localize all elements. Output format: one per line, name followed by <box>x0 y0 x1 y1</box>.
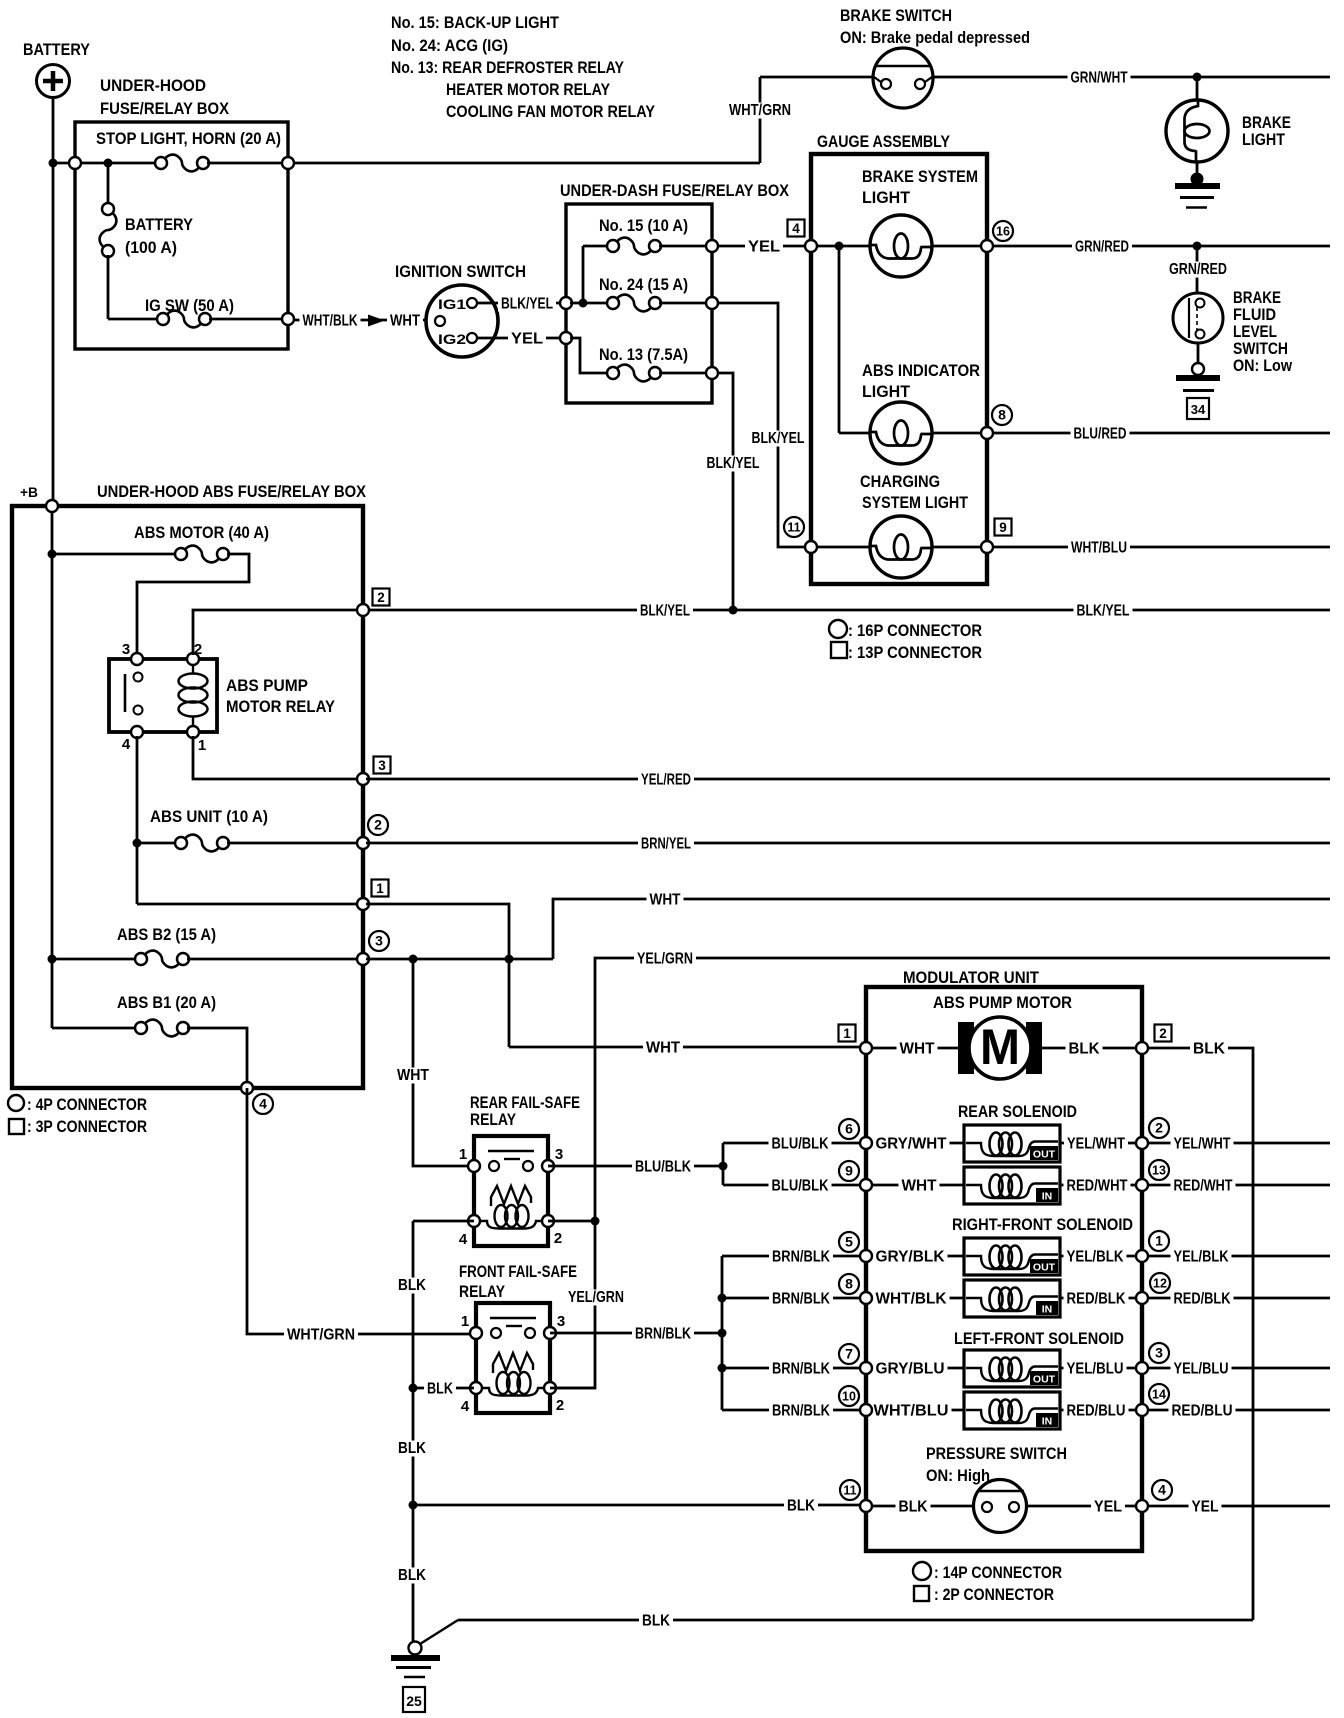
svg-text:BLK: BLK <box>642 1613 670 1630</box>
terminal modulator 10 <box>860 1404 872 1416</box>
svg-text:+B: +B <box>20 484 38 500</box>
arrowhead on WHT wire <box>368 315 385 327</box>
wire WHT sol <box>866 1184 964 1187</box>
label GRN/RED <box>1072 238 1132 255</box>
wire WHT down to rear fail-safe <box>413 959 472 1166</box>
svg-text:BLK: BLK <box>398 1277 426 1294</box>
label WHT (bus) <box>647 891 684 908</box>
connector id 2 (2P) <box>1155 1025 1172 1042</box>
fuse IG SW 50A <box>157 311 211 328</box>
svg-text:RED/BLU: RED/BLU <box>1067 1403 1126 1420</box>
svg-text:UNDER-DASH FUSE/RELAY BOX: UNDER-DASH FUSE/RELAY BOX <box>560 181 790 200</box>
ignition switch pin IG2 <box>467 333 477 343</box>
svg-text:BLU/RED: BLU/RED <box>1074 426 1127 443</box>
wire to brake light bulb <box>1196 77 1199 101</box>
junction BLK to pressure switch <box>409 1501 418 1510</box>
junction bracket to 7 <box>718 1364 727 1373</box>
terminal No.15 out <box>706 240 718 252</box>
connector id 9b <box>839 1161 859 1181</box>
svg-text:LIGHT: LIGHT <box>862 382 911 401</box>
label BLU/BLK (rear relay) <box>632 1158 694 1175</box>
svg-text:RED/WHT: RED/WHT <box>1174 1178 1233 1195</box>
wire BRN/BLK bracket <box>721 1256 724 1410</box>
svg-text:SYSTEM LIGHT: SYSTEM LIGHT <box>862 493 969 512</box>
solenoid LEFT-FRONT IN <box>964 1392 1060 1429</box>
wire to ABS UNIT fuse <box>137 842 177 845</box>
wire battery to stop-light fuse <box>53 162 158 165</box>
fuse ABS B2 15A <box>135 951 189 968</box>
label WHT <box>387 312 423 329</box>
svg-text:WHT: WHT <box>646 1040 680 1057</box>
connector id 1 (2P) <box>839 1025 856 1042</box>
terminal modulator 9 <box>860 1179 872 1191</box>
wire battery feed (vertical) <box>52 98 55 507</box>
connector id 4b <box>1152 1480 1172 1500</box>
relay pin 4 <box>131 726 143 738</box>
svg-text:BRAKE SYSTEM: BRAKE SYSTEM <box>862 167 978 186</box>
wire BLK to pressure switch <box>413 1504 866 1507</box>
terminal YEL in <box>560 332 572 344</box>
wire relay pin1 to terminal 3 <box>193 736 360 779</box>
svg-text:STOP LIGHT, HORN (20 A): STOP LIGHT, HORN (20 A) <box>96 129 281 148</box>
svg-text:ABS INDICATOR: ABS INDICATOR <box>862 361 980 380</box>
terminal BLK/YEL in <box>560 297 572 309</box>
wire stop-light fuse to box edge <box>207 162 288 165</box>
modulator unit box <box>866 987 1142 1551</box>
svg-text:COOLING FAN MOTOR RELAY: COOLING FAN MOTOR RELAY <box>446 102 656 121</box>
svg-text:HEATER MOTOR RELAY: HEATER MOTOR RELAY <box>446 80 611 99</box>
svg-text:YEL/WHT: YEL/WHT <box>1067 1136 1125 1153</box>
junction ABS UNIT fuse feed <box>133 839 142 848</box>
wire YEL/GRN bus <box>552 958 1330 1388</box>
terminal modulator 14 <box>1136 1404 1148 1416</box>
wire front relay pin3 BRN/BLK <box>550 1332 718 1335</box>
wire to ABS B2 fuse <box>52 958 137 961</box>
svg-text:WHT/GRN: WHT/GRN <box>729 102 791 119</box>
connector id 1c <box>1149 1231 1169 1251</box>
terminal modulator 1b <box>1136 1250 1148 1262</box>
wire brake light to ground <box>1196 162 1199 181</box>
terminal No.24 out <box>706 297 718 309</box>
connector id 4 (13P) <box>788 220 805 237</box>
svg-text:YEL/GRN: YEL/GRN <box>637 951 693 968</box>
svg-text:5: 5 <box>845 1234 853 1250</box>
wire ABS MOTOR fuse to relay pin3 <box>137 554 249 655</box>
svg-text:BLK/YEL: BLK/YEL <box>640 603 690 620</box>
svg-text:BRN/BLK: BRN/BLK <box>772 1403 830 1420</box>
svg-text:9: 9 <box>845 1163 853 1179</box>
svg-text:ON: High: ON: High <box>926 1466 990 1485</box>
terminal No.13 out <box>706 367 718 379</box>
svg-text:6: 6 <box>845 1121 853 1137</box>
wire IG2 YEL to under-dash box <box>477 337 566 340</box>
wire BLK ground bus <box>458 1619 1253 1622</box>
wire GRY/BLU <box>866 1367 964 1370</box>
connector id 5 <box>839 1232 859 1252</box>
svg-text:No. 13: REAR DEFROSTER RELAY: No. 13: REAR DEFROSTER RELAY <box>391 58 625 77</box>
legend 4P connector <box>8 1095 24 1111</box>
svg-text:2: 2 <box>194 641 202 658</box>
label YEL (No.15 out) <box>745 238 783 255</box>
wire GRN/RED gauge-16 to right <box>993 245 1330 248</box>
svg-text:IGNITION SWITCH: IGNITION SWITCH <box>395 262 526 281</box>
svg-text:FRONT FAIL-SAFE: FRONT FAIL-SAFE <box>459 1262 577 1281</box>
svg-text:RELAY: RELAY <box>459 1282 506 1301</box>
junction WHT branch to rear relay <box>409 955 418 964</box>
svg-text:8: 8 <box>845 1276 853 1292</box>
label RED/BLU (out) <box>1169 1402 1236 1419</box>
svg-text:4: 4 <box>1158 1482 1166 1498</box>
under-hood ABS fuse/relay box <box>12 506 363 1088</box>
wire YEL out <box>1148 1505 1330 1508</box>
svg-text:BLK/YEL: BLK/YEL <box>501 296 553 313</box>
wire YEL/BLU <box>1060 1367 1142 1370</box>
terminal gauge 4 <box>805 240 817 252</box>
label GRY/BLK <box>873 1248 948 1265</box>
wire YEL/RED <box>366 778 1330 781</box>
svg-text:YEL: YEL <box>748 239 780 256</box>
svg-text:: 2P CONNECTOR: : 2P CONNECTOR <box>934 1585 1054 1604</box>
svg-text:YEL/WHT: YEL/WHT <box>1174 1136 1231 1153</box>
wire RED/BLU <box>1060 1409 1142 1412</box>
legend 2P connector <box>914 1586 929 1601</box>
wire WHT riser to bus <box>553 899 1330 959</box>
ground brake light <box>1191 173 1204 186</box>
svg-text:YEL/BLK: YEL/BLK <box>1067 1249 1124 1266</box>
svg-text:BRN/YEL: BRN/YEL <box>641 836 691 853</box>
wire WHT/BLK sol <box>866 1297 964 1300</box>
terminal under-hood box left <box>69 157 81 169</box>
terminal ABS box 3c <box>357 953 369 965</box>
svg-text:3: 3 <box>122 641 130 658</box>
wire BLK drop <box>412 1221 415 1642</box>
wire YEL from switch <box>1026 1505 1142 1508</box>
connector id 4 (4P) <box>253 1094 273 1114</box>
label WHT/BLU (sol) <box>871 1402 952 1419</box>
label YEL/WHT (out) <box>1171 1135 1234 1152</box>
wire stop-light output to brake switch riser <box>294 162 760 165</box>
terminal modulator 7 <box>860 1362 872 1374</box>
svg-text:No. 13 (7.5A): No. 13 (7.5A) <box>599 345 688 364</box>
connector id 10 <box>839 1386 859 1406</box>
wire abs-indicator row <box>839 432 870 435</box>
wire brake-system row right <box>932 245 984 248</box>
label BRN/YEL <box>638 835 694 852</box>
svg-text:RIGHT-FRONT SOLENOID: RIGHT-FRONT SOLENOID <box>952 1215 1133 1234</box>
wire rear relay pin3 BLU/BLK <box>548 1165 719 1168</box>
wire to ABS B1 fuse <box>52 1027 137 1030</box>
label BLU/BLK (to 9) <box>769 1177 832 1194</box>
relay pin 1 <box>187 726 199 738</box>
label YEL/BLK <box>1064 1248 1127 1265</box>
svg-text:RED/BLU: RED/BLU <box>1172 1403 1233 1420</box>
svg-text:GRN/RED: GRN/RED <box>1169 261 1227 278</box>
svg-text:WHT: WHT <box>902 1178 937 1195</box>
label WHT/BLK <box>300 312 361 329</box>
wire No.13 feed <box>570 338 609 373</box>
svg-text:LIGHT: LIGHT <box>1242 130 1286 149</box>
svg-text:YEL: YEL <box>511 331 543 348</box>
connector id 7 <box>839 1344 859 1364</box>
wire front relay pin2 to YEL/GRN riser <box>550 1387 595 1390</box>
wire No.15 fuse to edge <box>659 245 706 248</box>
label BRN/BLK (to 7) <box>769 1360 833 1377</box>
label YEL/BLU <box>1064 1360 1127 1377</box>
svg-text:WHT/BLK: WHT/BLK <box>876 1291 947 1308</box>
motor ABS PUMP MOTOR <box>958 1022 974 1074</box>
terminal modulator 5 <box>860 1250 872 1262</box>
ABS pump motor relay box <box>109 659 217 732</box>
svg-text:BRN/BLK: BRN/BLK <box>772 1361 830 1378</box>
label BRN/BLK (to 10) <box>769 1402 833 1419</box>
svg-text:BLK/YEL: BLK/YEL <box>707 455 760 472</box>
ground id 34 <box>1187 398 1209 419</box>
junction ABS B2 feed <box>48 955 57 964</box>
svg-text:No. 24: ACG (IG): No. 24: ACG (IG) <box>391 36 508 55</box>
wire battery 100A fuse feed <box>107 163 110 205</box>
svg-text:RED/WHT: RED/WHT <box>1067 1178 1128 1195</box>
wire brake-system row <box>814 245 870 248</box>
wire RED/WHT <box>1060 1184 1142 1187</box>
svg-text:No. 24 (15 A): No. 24 (15 A) <box>599 275 688 294</box>
svg-text:YEL: YEL <box>1192 1499 1219 1516</box>
bulb BRAKE SYSTEM LIGHT <box>870 215 932 277</box>
svg-text:4: 4 <box>259 1096 267 1112</box>
terminal gauge 9 <box>981 541 993 553</box>
terminal modulator 2b <box>1136 1137 1148 1149</box>
fuse BATTERY 100A (vertical) <box>100 203 117 257</box>
junction WHT at YEL-GRN row <box>505 955 514 964</box>
label RED/WHT <box>1064 1177 1131 1194</box>
svg-text:BATTERY: BATTERY <box>23 40 91 59</box>
label YEL/BLK (out) <box>1171 1248 1232 1265</box>
svg-text:BRN/BLK: BRN/BLK <box>635 1326 691 1343</box>
label RED/BLK <box>1064 1290 1129 1307</box>
svg-text:REAR SOLENOID: REAR SOLENOID <box>958 1102 1077 1121</box>
connector id 14 <box>1149 1384 1169 1404</box>
label WHT/BLK (sol) <box>873 1290 950 1307</box>
wire GRY/BLK <box>866 1255 964 1258</box>
wire WHT from terminal 3c <box>366 958 553 961</box>
fuse ABS MOTOR 40A <box>175 546 229 563</box>
wire YEL/BLK <box>1060 1255 1142 1258</box>
label GRN/WHT <box>1068 69 1131 86</box>
wire WHT/BLU gauge-9 to right <box>993 546 1330 549</box>
wire relay pin2 to terminal 2 <box>193 610 360 655</box>
junction brake fluid switch tap <box>1193 242 1202 251</box>
svg-text:ON: Brake pedal depressed: ON: Brake pedal depressed <box>840 28 1030 47</box>
svg-text:1: 1 <box>1155 1233 1163 1249</box>
svg-text:BLK: BLK <box>1193 1041 1225 1058</box>
fuse STOP LIGHT HORN 20A <box>155 155 209 172</box>
svg-text:2: 2 <box>377 590 385 605</box>
ignition switch pin IG1 <box>467 298 477 308</box>
wire diagonal to ground <box>420 1620 458 1644</box>
legend 14P connector <box>913 1562 931 1580</box>
label YEL/GRN (riser) <box>566 1290 626 1306</box>
label BLK/YEL (IG1) <box>498 295 556 312</box>
brake fluid level switch <box>1173 293 1223 343</box>
junction bracket to 8 <box>718 1294 727 1303</box>
junction battery-100A branch <box>104 159 113 168</box>
wire YEL/WHT out <box>1148 1142 1330 1145</box>
wire RED/BLK out <box>1148 1297 1330 1300</box>
svg-text:25: 25 <box>406 1693 422 1709</box>
connector id 9 (13P) <box>995 519 1012 536</box>
terminal +B into ABS box <box>46 500 58 512</box>
terminal ground <box>409 1642 422 1655</box>
label YEL/WHT <box>1064 1135 1128 1152</box>
wire BLK/YEL bus <box>366 609 1330 612</box>
label GRY/WHT <box>873 1135 950 1152</box>
label YEL (out) <box>1189 1498 1222 1515</box>
label RED/BLK (out) <box>1171 1290 1234 1307</box>
terminal modulator 2 <box>1136 1042 1148 1054</box>
svg-text:MODULATOR UNIT: MODULATOR UNIT <box>903 968 1040 987</box>
wire No.15 fuse feed <box>582 246 585 303</box>
junction No.15 feed <box>579 299 588 308</box>
legend 13P connector <box>831 642 847 658</box>
label BLK/YEL (No.13 riser) <box>705 456 762 472</box>
relay pin 3 <box>131 653 143 665</box>
svg-text:WHT/BLU: WHT/BLU <box>874 1403 949 1420</box>
bulb ABS INDICATOR LIGHT <box>870 402 932 464</box>
wire abs-indicator row right <box>932 432 984 435</box>
fuse ABS B1 20A <box>135 1020 189 1037</box>
svg-text:13: 13 <box>1152 1164 1166 1178</box>
wire No.13 fuse to edge <box>659 372 706 375</box>
svg-text:ABS B2 (15 A): ABS B2 (15 A) <box>117 925 216 944</box>
label WHT/GRN (front relay) <box>284 1326 358 1343</box>
svg-text:M: M <box>980 1019 1020 1075</box>
svg-text:BLK: BLK <box>1069 1041 1100 1058</box>
svg-text:GRY/WHT: GRY/WHT <box>876 1136 947 1153</box>
svg-text:RED/BLK: RED/BLK <box>1067 1291 1126 1308</box>
wire BLK/YEL No.13-out down <box>718 373 733 610</box>
solenoid RIGHT-FRONT OUT <box>964 1238 1060 1275</box>
connector id 3 (3P) <box>374 757 391 774</box>
label BLK (motor) <box>1066 1040 1103 1057</box>
label GRN/RED (drop) <box>1167 262 1229 278</box>
relay coil <box>192 663 194 674</box>
terminal gauge 16 <box>981 240 993 252</box>
svg-text:RELAY: RELAY <box>470 1110 517 1129</box>
svg-text:WHT/BLK: WHT/BLK <box>303 313 358 330</box>
connector id 8b <box>839 1274 859 1294</box>
svg-text:UNDER-HOOD ABS FUSE/RELAY BOX: UNDER-HOOD ABS FUSE/RELAY BOX <box>97 482 367 501</box>
terminal modulator 11 <box>860 1500 872 1512</box>
bulb BRAKE LIGHT <box>1166 100 1228 162</box>
terminal stop-light output <box>282 157 294 169</box>
svg-text:PRESSURE SWITCH: PRESSURE SWITCH <box>926 1444 1067 1463</box>
wire RED/BLK <box>1060 1297 1142 1300</box>
terminal modulator 3b <box>1136 1362 1148 1374</box>
svg-text:(100 A): (100 A) <box>125 238 177 257</box>
fuse No.15 10A <box>607 238 661 255</box>
label BLK (drop 2) <box>396 1441 428 1457</box>
svg-text:RED/BLK: RED/BLK <box>1174 1291 1231 1308</box>
svg-text:YEL: YEL <box>1094 1499 1122 1516</box>
svg-text:ABS UNIT (10 A): ABS UNIT (10 A) <box>150 807 268 826</box>
terminal ABS box 4 <box>241 1082 253 1094</box>
label BLK/YEL (No.24 riser) <box>750 431 807 447</box>
ignition switch body <box>426 285 498 357</box>
wire IG1 BLK/YEL to under-dash box <box>477 302 566 305</box>
label BLU/RED <box>1071 425 1130 442</box>
wire GRY/WHT <box>866 1142 964 1145</box>
label YEL/BLU (out) <box>1171 1360 1232 1377</box>
wire riser to brake switch <box>759 77 762 163</box>
svg-text:CHARGING: CHARGING <box>860 472 940 491</box>
svg-text:ABS PUMP: ABS PUMP <box>226 676 308 695</box>
svg-text:YEL/GRN: YEL/GRN <box>568 1289 624 1306</box>
wire BLK stub to front relay pin4 <box>413 1387 474 1390</box>
svg-text:BRN/BLK: BRN/BLK <box>772 1291 830 1308</box>
wire BLK from modulator 2 <box>1148 1048 1253 1620</box>
svg-text:YEL/RED: YEL/RED <box>641 772 691 789</box>
svg-text:GRN/RED: GRN/RED <box>1075 239 1129 256</box>
wire WHT from terminal 1 <box>366 904 509 1047</box>
wire relay pin4 down <box>136 736 139 904</box>
relay FRONT FAIL-SAFE <box>461 1303 565 1415</box>
svg-text:11: 11 <box>843 1484 856 1498</box>
wire GRN/RED to fluid switch <box>1196 246 1199 294</box>
wire RED/BLU out <box>1148 1409 1330 1412</box>
terminal modulator 4 <box>1136 1500 1148 1512</box>
svg-text:11: 11 <box>787 521 800 535</box>
battery positive terminal <box>37 65 70 98</box>
wire IG SW fuse to box edge <box>209 318 288 321</box>
svg-text:GAUGE ASSEMBLY: GAUGE ASSEMBLY <box>817 132 951 151</box>
wire fluid switch to ground <box>1197 343 1200 363</box>
svg-text:GRY/BLU: GRY/BLU <box>876 1361 945 1378</box>
wire rear relay pin2 to YEL/GRN <box>548 1220 595 1223</box>
svg-text:: 3P CONNECTOR: : 3P CONNECTOR <box>27 1117 147 1136</box>
wire YEL/BLK out <box>1148 1255 1330 1258</box>
connector id 8 (16P) <box>992 405 1012 425</box>
ignition switch pin BAT <box>435 316 445 326</box>
wire BLK/YEL No.24-out to gauge 11 <box>718 303 805 547</box>
ground id 25 <box>403 1687 425 1712</box>
connector id 11 (16P) <box>784 517 804 537</box>
label WHT (motor) <box>897 1040 938 1057</box>
terminal ABS box 2 <box>357 604 369 616</box>
label BLU/BLK (to 6) <box>769 1135 832 1152</box>
svg-text:1: 1 <box>198 737 206 754</box>
svg-text:12: 12 <box>1153 1277 1167 1291</box>
svg-text:1: 1 <box>843 1026 851 1041</box>
svg-text:BLK/YEL: BLK/YEL <box>1077 603 1130 620</box>
svg-text:BLK/YEL: BLK/YEL <box>752 430 805 447</box>
svg-text:1: 1 <box>376 881 384 896</box>
wire BLK inside to switch <box>866 1505 975 1508</box>
wire rear relay pin4 to BLK drop <box>413 1220 474 1223</box>
terminal fluid switch ground <box>1192 363 1204 375</box>
svg-text:BLU/BLK: BLU/BLK <box>635 1159 691 1176</box>
svg-text:14: 14 <box>1152 1388 1166 1402</box>
legend 16P connector <box>829 620 847 638</box>
connector id 3c2 <box>1149 1343 1169 1363</box>
junction BLU/BLK bracket <box>719 1162 728 1171</box>
label WHT (drop) <box>395 1068 431 1084</box>
svg-text:IG SW (50 A): IG SW (50 A) <box>145 296 234 315</box>
svg-text:IG1: IG1 <box>438 296 466 312</box>
label RED/WHT (out) <box>1171 1177 1236 1194</box>
terminal modulator 8 <box>860 1292 872 1304</box>
svg-text:WHT: WHT <box>900 1041 935 1058</box>
label BLK (mod 2 out) <box>1190 1040 1228 1057</box>
svg-text:: 13P CONNECTOR: : 13P CONNECTOR <box>848 643 982 662</box>
